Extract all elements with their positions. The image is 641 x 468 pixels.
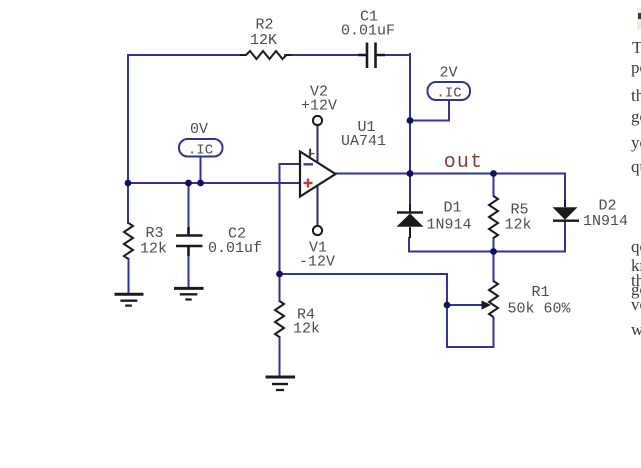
ground R4 [266,377,296,390]
node 0V IC dot [197,180,204,187]
svg-text:0.01uf: 0.01uf [208,240,262,257]
svg-text:12k: 12k [140,241,167,258]
svg-text:0.01uF: 0.01uF [341,23,395,40]
svg-text:D2: D2 [598,198,616,215]
diode D1 leads [409,204,411,238]
V1 terminal circle [313,226,322,235]
svg-text:12k: 12k [504,217,531,234]
svg-text:1N914: 1N914 [426,217,471,234]
potentiometer R1 wiper arrowhead [482,300,492,309]
wire pot bottom loop [447,305,494,347]
svg-text:R1: R1 [531,284,549,301]
node wiper dot [444,302,451,309]
wire C2 to ground [188,248,190,287]
op-amp U1 triangle [300,152,336,197]
wire R5 bottom lead [493,238,495,252]
svg-text:50k 60%: 50k 60% [507,301,571,318]
resistor R4 [275,301,284,337]
svg-text:R3: R3 [145,225,163,242]
diode D2 (cathode bar down) [553,207,580,222]
capacitor C2 [176,227,203,256]
wire D2 branch vertical [564,174,566,201]
wire R4 top lead [279,274,281,301]
wire R3 branch vertical [127,183,129,223]
wire C1 to D1 vertical [409,54,411,204]
ground R3 [115,294,144,305]
resistor R3 [124,223,133,259]
IC box 2V [428,82,471,100]
top-right highlight sliver [637,8,641,30]
node 2V IC dot [407,117,414,124]
wire R3 to ground [128,259,130,293]
svg-text:D1: D1 [443,200,461,217]
wire C2 branch vertical [188,183,190,232]
svg-text:1N914: 1N914 [583,213,628,230]
wire node A horizontal (+ input net) [128,182,300,184]
wire top rail horizontal [128,54,410,56]
op-amp plus input marker [304,179,313,188]
svg-text:R2: R2 [255,17,273,34]
resistor R2 [240,51,292,59]
node C2 dot [185,180,192,187]
svg-text:2V: 2V [439,65,457,82]
node feedback/R4 dot [276,271,283,278]
svg-text:UA741: UA741 [341,133,386,150]
svg-text:.IC: .IC [188,143,213,159]
op-amp V+ plus marker [309,149,311,157]
ground C2 [174,288,204,299]
wire 0V IC stub [200,156,202,183]
wire R5 top lead [493,174,495,197]
wire V1 supply pin [317,185,319,226]
op-amp minus input marker [304,163,314,165]
svg-text:-12V: -12V [299,254,335,271]
node out/D1 dot [407,170,414,177]
wire R1 top lead [493,252,495,282]
right-edge clipped paragraph fragments [632,39,641,56]
diode D2 leads [564,200,566,222]
wire diode network bottom [409,222,565,252]
wire inverting input feedback vertical [280,164,301,274]
wire 2V IC stub [410,100,449,121]
capacitor C1 [358,43,385,69]
wire output net [336,173,566,175]
svg-text:12k: 12k [293,321,320,338]
V2 terminal circle [313,116,322,125]
diode D1 (cathode bar up) [397,211,424,227]
node junction dots [125,117,497,308]
svg-text:12K: 12K [250,32,277,49]
node out/R5 dot [490,170,497,177]
wire wiper run horizontal [280,274,448,305]
potentiometer R1 resistor body [489,281,498,317]
svg-text:.IC: .IC [436,86,461,102]
wire left rail vertical [127,55,129,183]
wire V2 supply pin [317,126,319,163]
svg-text:out: out [444,151,484,174]
op-amp V+ pin wire inside [317,140,319,162]
IC box 0V [179,139,223,157]
node R5/R1 dot [490,248,497,255]
wire wiper arrow lead [448,304,483,306]
svg-text:0V: 0V [190,121,208,138]
wire R4 to ground [279,337,281,376]
node A dot left [125,180,132,187]
svg-text:+12V: +12V [301,98,337,115]
resistor R5 [489,196,498,238]
